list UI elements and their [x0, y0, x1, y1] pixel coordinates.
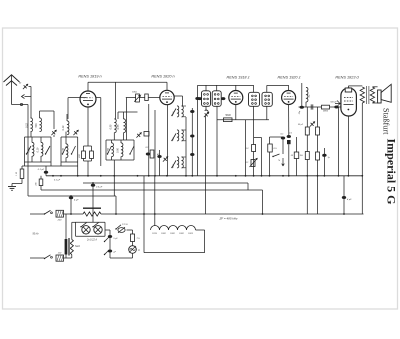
svg-text:RENS 1820 n: RENS 1820 n [151, 75, 174, 79]
svg-text:0.55: 0.55 [110, 124, 113, 129]
svg-text:0.1 µF: 0.1 µF [38, 169, 45, 171]
svg-text:0.5 µF: 0.5 µF [96, 187, 103, 189]
svg-text:0M05: 0M05 [323, 111, 329, 113]
svg-text:Staßfurt: Staßfurt [381, 108, 390, 135]
svg-text:50kΩ: 50kΩ [132, 92, 137, 94]
svg-text:RENS 1920 z: RENS 1920 z [277, 76, 300, 80]
svg-text:0.22: 0.22 [26, 123, 29, 128]
svg-text:0.38: 0.38 [28, 147, 31, 152]
svg-text:U: U [138, 249, 140, 252]
svg-text:RENS 1819 n: RENS 1819 n [78, 75, 101, 79]
svg-text:Netz: Netz [75, 245, 81, 248]
svg-text:170 Ω: 170 Ω [122, 224, 128, 226]
svg-text:RENS 1918 z: RENS 1918 z [226, 76, 249, 80]
svg-text:50 Hz: 50 Hz [32, 234, 39, 236]
svg-text:1 M: 1 M [16, 172, 18, 176]
svg-text:0.55: 0.55 [107, 148, 110, 153]
svg-text:ZF = 485 kHz: ZF = 485 kHz [218, 217, 238, 221]
svg-text:4 µF: 4 µF [347, 198, 352, 201]
svg-text:50 µF: 50 µF [298, 124, 304, 126]
svg-text:220: 220 [57, 220, 62, 222]
svg-text:0.19: 0.19 [37, 147, 40, 152]
svg-text:200: 200 [79, 153, 81, 158]
svg-text:0.35: 0.35 [62, 148, 65, 153]
svg-text:0.19: 0.19 [62, 125, 65, 130]
svg-text:2x 0.22 A: 2x 0.22 A [86, 239, 97, 242]
svg-text:5000: 5000 [225, 114, 231, 117]
svg-text:540: 540 [35, 123, 38, 128]
svg-text:0.1 µF: 0.1 µF [54, 180, 61, 182]
svg-text:0.55: 0.55 [117, 124, 120, 129]
svg-text:Imperial 5 G: Imperial 5 G [384, 139, 398, 205]
svg-text:4 µF: 4 µF [74, 199, 79, 202]
svg-text:0.90: 0.90 [117, 148, 120, 153]
svg-text:RENS 1823 d: RENS 1823 d [335, 76, 359, 80]
